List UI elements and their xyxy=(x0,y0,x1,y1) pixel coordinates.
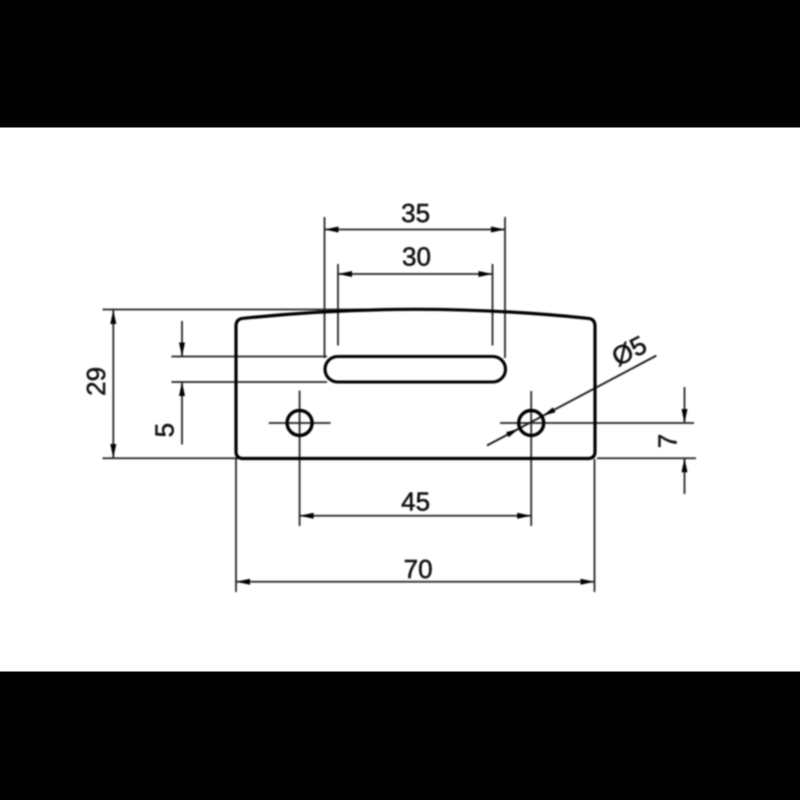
arrowhead: 5 lower (points up) xyxy=(179,382,185,396)
extension line: 29 top (tangent to plate apex) xyxy=(103,309,419,311)
arrowhead: 30 left xyxy=(338,271,352,277)
centerline: left hole horizontal xyxy=(269,422,331,424)
arrowhead: 7 upper (points down) xyxy=(682,409,688,423)
arrowhead: 45 left xyxy=(300,513,314,519)
extension line: 7 bottom xyxy=(597,457,696,459)
arrowhead: 35 right xyxy=(491,227,505,233)
hole left xyxy=(287,410,312,435)
arrowhead: diameter leader upper (points to hole, down-left) xyxy=(543,407,556,416)
extension line: 35 right xyxy=(504,217,506,358)
svg-text:30: 30 xyxy=(402,242,431,272)
arrowhead: 35 left xyxy=(325,227,339,233)
arrowhead: 5 upper (points down) xyxy=(179,343,185,357)
svg-text:45: 45 xyxy=(401,487,430,517)
extension line: 35 left xyxy=(324,217,326,358)
extension line: 30 left xyxy=(337,264,339,346)
dimension line: 5 lower tail xyxy=(181,382,183,445)
arrowhead: 45 right xyxy=(517,513,531,519)
arrowhead: diameter leader lower (points to hole, up-right) xyxy=(506,429,519,438)
arrowhead: 29 up xyxy=(110,310,116,324)
arrowhead: 70 right xyxy=(581,579,595,585)
leader line: diameter 5 xyxy=(487,356,656,446)
dimension line: 45 horizontal xyxy=(300,515,532,517)
dimension line: 70 horizontal xyxy=(236,581,595,583)
plate outline xyxy=(236,309,595,458)
extension line: 30 right xyxy=(492,264,494,346)
white drawing sheet band xyxy=(0,128,800,672)
centerline: right hole vertical (45 extension) xyxy=(530,391,532,526)
centerline: left hole vertical (45 extension) xyxy=(299,391,301,526)
svg-text:70: 70 xyxy=(404,554,433,584)
svg-text:29: 29 xyxy=(81,367,111,396)
arrowhead: 7 lower (points up) xyxy=(682,458,688,472)
dimension line: 7 upper tail xyxy=(684,387,686,423)
dimension line: 5 upper tail xyxy=(181,321,183,357)
dimension line: 35 horizontal xyxy=(325,229,506,231)
arrowhead: 70 left xyxy=(236,579,250,585)
centerline: right hole horizontal (7 top extension) xyxy=(500,422,694,424)
dimension line: 7 lower tail xyxy=(684,458,686,494)
arrowhead: 29 down xyxy=(110,444,116,458)
svg-text:5: 5 xyxy=(150,423,180,437)
extension line: 70 right xyxy=(594,459,596,592)
dimension line: 29 vertical xyxy=(112,310,114,458)
hole right xyxy=(519,411,544,436)
svg-text:7: 7 xyxy=(652,434,682,448)
dimension line: 30 horizontal xyxy=(338,273,493,275)
arrowhead: 30 right xyxy=(479,271,493,277)
extension line: 5 bottom (slot bottom level) xyxy=(171,381,327,383)
extension line: 29 bottom xyxy=(103,457,242,459)
extension line: 70 left xyxy=(235,459,237,592)
extension line: 5 top (slot top level) xyxy=(171,356,327,358)
svg-text:35: 35 xyxy=(401,198,430,228)
slot xyxy=(325,357,506,383)
